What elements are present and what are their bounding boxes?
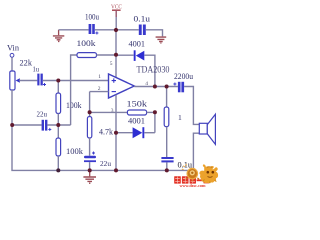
junction rail pin3 dot	[114, 168, 118, 172]
wire output column down to D2	[154, 112, 156, 132]
wire op-amp output	[134, 86, 178, 88]
wire feedback node to R5	[90, 111, 128, 113]
wire left rail down and bottom rail	[11, 90, 193, 170]
wire C3 to VCC junction	[95, 29, 116, 31]
wire R2 to node B	[57, 114, 59, 126]
capacitor C1 1u	[37, 74, 39, 86]
junction output diode column dot	[153, 85, 157, 89]
capacitor C3 100u	[89, 24, 92, 34]
capacitor C5 22u	[84, 156, 96, 159]
resistor R6 4.7k	[87, 117, 91, 139]
watermark logo crab	[199, 164, 218, 183]
junction R1 D1 node dot	[114, 53, 118, 57]
wire C2 to node B	[47, 124, 70, 126]
capacitor C4 0.1u	[139, 25, 142, 36]
wire feedback node down to R6	[89, 112, 91, 116]
junction output R7 dot	[165, 85, 169, 89]
resistor R7 1	[164, 107, 169, 127]
wire R7 to C7	[166, 127, 168, 157]
wire R7 lead down	[166, 87, 168, 108]
resistor R1 100k	[77, 53, 97, 58]
svg-text:2200u: 2200u	[174, 72, 194, 81]
op-amp U1 TDA2030	[109, 74, 135, 98]
svg-text:0.1u: 0.1u	[178, 160, 193, 169]
plus mark C1	[43, 83, 46, 86]
svg-text:TDA2030: TDA2030	[137, 64, 170, 74]
wire speaker bottom stub	[193, 133, 199, 170]
op-amp plus input mark	[112, 78, 116, 82]
wire C5 to rail	[89, 162, 91, 170]
wire C1 to node A	[43, 80, 109, 82]
svg-text:22k: 22k	[20, 58, 33, 68]
wire R1 left lead down to node B	[71, 55, 77, 125]
potentiometer RP1	[10, 71, 15, 90]
diode D1 4001	[134, 50, 136, 61]
wire node A down to R2	[57, 81, 59, 94]
svg-text:4001: 4001	[129, 39, 146, 48]
watermark logo gold medallion	[182, 164, 187, 170]
wire R6 to C5	[89, 138, 91, 156]
wire input to pot	[11, 58, 13, 72]
capacitor C6 2200u	[178, 82, 181, 93]
svg-text:4.7k: 4.7k	[99, 126, 114, 136]
junction rail C7 dot	[165, 168, 169, 172]
svg-text:100k: 100k	[66, 100, 82, 110]
wire pin3 down to rail	[115, 95, 117, 171]
wire VCC node down to pin5	[115, 30, 117, 78]
junction node B dot	[56, 123, 60, 127]
svg-text:0.1u: 0.1u	[134, 15, 151, 24]
wire D1 to output column	[144, 55, 155, 87]
wire C4 to ground G2	[146, 29, 163, 36]
junction R5 output column dot	[153, 110, 157, 114]
wire rail to C2	[12, 124, 42, 126]
svg-text:150k: 150k	[127, 98, 148, 108]
wire G1 to C3	[59, 29, 89, 31]
op-amp minus input mark	[112, 91, 116, 93]
svg-text:100u: 100u	[85, 13, 100, 22]
speaker LS1	[199, 123, 207, 134]
plus mark C2	[48, 128, 51, 131]
input terminal	[10, 53, 14, 57]
resistor R5 150k	[127, 110, 146, 115]
junction node A dot	[56, 79, 60, 83]
ground G3 bottom	[89, 170, 91, 176]
svg-text:1: 1	[98, 74, 101, 80]
wire wiper to C1	[19, 80, 37, 82]
svg-text:100k: 100k	[66, 146, 84, 156]
resistor R4 100k	[56, 138, 61, 156]
svg-text:22u: 22u	[37, 110, 48, 119]
wire node to D1	[116, 54, 134, 56]
wire R4 to bottom rail	[57, 156, 59, 170]
plus mark C6	[173, 83, 176, 86]
wire C6 to speaker column	[184, 86, 199, 125]
watermark red text blocks	[174, 164, 218, 188]
svg-text:4001: 4001	[128, 116, 145, 125]
svg-text:5: 5	[110, 61, 113, 67]
svg-text:Vin: Vin	[7, 43, 20, 53]
junction pin3 D2 dot	[114, 131, 118, 135]
wire C7 to rail	[166, 162, 168, 170]
ground G1 top-left	[58, 30, 60, 35]
wire VCC node to C4	[116, 29, 139, 31]
diode D2 4001	[133, 127, 143, 138]
wire pin2 to feedback node	[90, 92, 109, 112]
junction rail C5 dot	[88, 168, 92, 172]
resistor R2 100k	[56, 93, 61, 114]
potentiometer wiper arrow	[16, 78, 20, 82]
ground G2 top-right	[156, 37, 167, 43]
svg-text:22u: 22u	[100, 159, 111, 168]
wire R1 to VCC node	[97, 54, 117, 56]
junction left rail 22u dot	[10, 123, 14, 127]
svg-text:www.dzsc.com: www.dzsc.com	[180, 183, 206, 187]
wire D2 to output column	[144, 132, 155, 134]
capacitor C7 0.1u	[161, 157, 173, 159]
junction bottom rail R4 dot	[56, 168, 60, 172]
svg-text:100k: 100k	[77, 38, 97, 48]
wire node B down to R4	[57, 125, 59, 138]
junction feedback node dot	[88, 110, 92, 114]
svg-text:1u: 1u	[33, 65, 40, 74]
wire pin3 to D2	[116, 132, 133, 134]
wire R5 to output column	[147, 111, 155, 113]
svg-text:1: 1	[178, 113, 182, 122]
plus mark C3	[95, 32, 98, 35]
junction VCC node dot	[114, 28, 118, 32]
capacitor C2 22u	[42, 120, 44, 131]
plus mark C5	[92, 152, 95, 155]
